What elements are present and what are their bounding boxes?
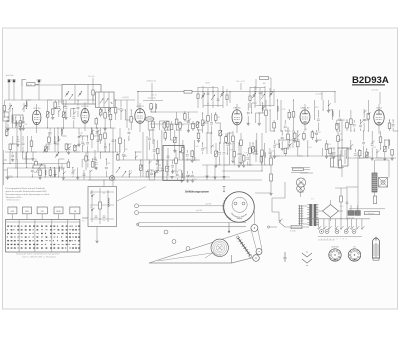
svg-text:C67: C67: [132, 119, 135, 121]
table caption: [16, 253, 59, 259]
mid lower fill: [117, 151, 164, 177]
mid low cluster: [149, 159, 197, 182]
svg-text:C80 C81: C80 C81: [348, 217, 355, 219]
svg-text:+U1 20±: +U1 20±: [371, 90, 378, 92]
tube V3 UCH81: [135, 106, 145, 123]
lower wire left: [3, 163, 70, 165]
svg-text:R3: R3: [125, 149, 127, 151]
bus elbow to V3: [137, 91, 138, 108]
V3 top labels: [143, 98, 163, 101]
svg-text:U2: U2: [103, 193, 105, 195]
svg-text:3: 3: [327, 239, 328, 241]
mains symbols: [283, 251, 312, 266]
below V3 verticals: [143, 122, 155, 177]
svg-text:L9: L9: [212, 146, 214, 148]
svg-text:L10: L10: [80, 133, 83, 135]
pin numbers row: [321, 239, 347, 241]
svg-text:9: 9: [346, 239, 347, 241]
chassis bus left: [5, 176, 230, 178]
svg-text:17a-19a: 17a-19a: [88, 76, 95, 78]
pocket fills: [48, 112, 293, 166]
left RF lattice A: [3, 99, 115, 130]
mid band bus: [118, 159, 200, 161]
bus inline resistor: [184, 90, 192, 93]
svg-text:weiß 88: weiß 88: [205, 203, 211, 205]
svg-text:Gl 1: Gl 1: [340, 206, 343, 208]
tuning gang left: [8, 103, 26, 160]
svg-text:Tr 1: Tr 1: [311, 198, 314, 201]
svg-text:L42: L42: [152, 171, 155, 173]
svg-text:R60: R60: [275, 144, 278, 146]
IF transformer cluster 2: [249, 82, 274, 108]
svg-text:5: 5: [333, 239, 334, 241]
C51 label: [236, 81, 245, 90]
svg-text:R5: R5: [60, 102, 62, 104]
far left box: [3, 112, 9, 128]
below V3 lattice: [115, 128, 130, 153]
svg-text:R44: R44: [216, 117, 219, 119]
svg-text:Ant Erde: Ant Erde: [6, 74, 15, 77]
svg-text:Netzspannungen und der Spannun: Netzspannungen und der Spannungen im Ger…: [6, 193, 51, 196]
svg-text:UABC 80: UABC 80: [301, 106, 311, 109]
aerial to box wire: [35, 84, 62, 86]
IF transformer cluster 1: [197, 83, 228, 108]
svg-text:LW: LW: [41, 211, 44, 213]
svg-text:C59: C59: [107, 163, 110, 165]
det bus: [202, 164, 266, 166]
svg-text:R17: R17: [181, 124, 184, 126]
svg-text:L15: L15: [373, 147, 376, 149]
svg-text:UL 84: UL 84: [376, 108, 382, 110]
svg-text:8: 8: [343, 239, 344, 241]
band filter box: [62, 85, 101, 105]
res chain x271: [269, 152, 272, 195]
svg-text:C36: C36: [116, 109, 119, 111]
tube V6 UL84: [374, 108, 384, 126]
det low extension: [205, 165, 225, 180]
svg-text:C22: C22: [339, 133, 342, 135]
svg-text:Seilführungssystem: Seilführungssystem: [185, 191, 210, 194]
left mid bus: [5, 127, 112, 129]
out lattice A: [346, 100, 399, 132]
svg-text:L49: L49: [188, 159, 191, 161]
leader diagonal: [117, 187, 146, 202]
svg-text:2: 2: [324, 239, 325, 241]
tube V5 UABC80: [300, 106, 310, 124]
svg-text:C78: C78: [282, 109, 285, 111]
volume potentiometer: [32, 164, 45, 174]
det lattice A: [201, 102, 231, 143]
switch position table: [6, 199, 81, 252]
bus label: [146, 81, 156, 83]
svg-text:C37: C37: [124, 156, 127, 158]
svg-text:0,5M log: 0,5M log: [32, 172, 39, 174]
svg-text:C43: C43: [327, 144, 330, 146]
svg-text:+185(2) (2): +185(2) (2): [146, 81, 156, 83]
chassis bus right: [300, 172, 313, 174]
notes paragraph: [6, 187, 51, 199]
svg-text:MW: MW: [25, 211, 29, 213]
misc verticals: [152, 91, 380, 104]
tube socket A: [329, 246, 341, 261]
long chassis y180: [62, 179, 262, 181]
svg-text:UCC 85: UCC 85: [81, 106, 89, 108]
left bottom parts: [9, 152, 62, 176]
svg-text:C47: C47: [195, 146, 198, 148]
svg-text:4: 4: [330, 239, 331, 241]
output transformer and speaker: [348, 152, 389, 211]
svg-text:130/2x: 130/2x: [205, 83, 210, 85]
tube V4 EBF80: [232, 107, 242, 125]
svg-text:4a: 4a: [103, 220, 105, 222]
svg-text:R14: R14: [315, 107, 318, 109]
mid lattice A: [114, 99, 135, 130]
svg-text:Toleranzen ±10%.: Toleranzen ±10%.: [6, 196, 23, 199]
out lattice B: [346, 130, 394, 160]
svg-text:C68: C68: [14, 144, 17, 146]
fill x100-135: [104, 108, 127, 186]
top supply bus: [137, 91, 336, 103]
mains lead: [272, 182, 285, 221]
pilot lamp: [297, 185, 305, 197]
det lattice B: [201, 132, 270, 167]
svg-text:L4: L4: [130, 170, 132, 172]
left top bus: [5, 99, 135, 101]
svg-text:L63: L63: [331, 154, 334, 156]
indicator lamp: [291, 168, 310, 193]
tube side view: [373, 237, 380, 260]
svg-text:UKW: UKW: [56, 211, 61, 213]
mid lattice C: [148, 129, 200, 162]
dial cord system: [135, 187, 263, 264]
left low bus: [5, 151, 118, 153]
left RF lattice B: [5, 127, 110, 154]
fill x262-270: [261, 100, 268, 172]
svg-text:a-b(2)(2): a-b(2)(2): [122, 97, 129, 99]
svg-text:9,5: 9,5: [82, 221, 85, 223]
svg-text:R10: R10: [317, 132, 320, 134]
volume pot wire: [8, 167, 65, 169]
left trimmer arrows: [43, 147, 126, 176]
chassis bus mid: [222, 170, 262, 172]
svg-text:weiß 85: weiß 85: [196, 210, 202, 212]
svg-text:Si 0,2A: Si 0,2A: [290, 230, 296, 233]
svg-text:Wellenschalter: Wellenschalter: [7, 199, 20, 202]
ratio detector box: [163, 146, 184, 181]
svg-text:EBF 80: EBF 80: [234, 107, 242, 109]
svg-text:C51 u C52: C51 u C52: [236, 81, 245, 83]
R20 loop top: [255, 77, 271, 93]
mid lattice B: [148, 103, 202, 132]
left RF lattice C: [6, 151, 110, 179]
svg-text:C64: C64: [203, 147, 206, 149]
svg-text:Für eingegebene Werte und und: Für eingegebene Werte und und Schaltteil…: [6, 187, 46, 190]
svg-text:Stellung der Tasten und Kontak: Stellung der Tasten und Kontakte von vor…: [16, 253, 59, 256]
svg-text:UCH 81: UCH 81: [136, 106, 144, 108]
coil pack box: [96, 92, 130, 108]
below V4 parts: [231, 131, 242, 164]
supply labels: [315, 90, 378, 96]
svg-text:+2(2)+2(4): +2(2)+2(4): [147, 98, 156, 100]
svg-text:Taste U = UKW, M = MW, L = LW: Taste U = UKW, M = MW, L = LW gedrückt: [22, 256, 56, 259]
table side symbol: [82, 218, 88, 223]
aerial input group: [6, 74, 95, 100]
af lattice A: [270, 99, 345, 131]
svg-text:C67: C67: [367, 157, 370, 159]
tube V2 UCC85: [81, 106, 90, 123]
parts above tone box: [83, 170, 105, 187]
svg-text:7: 7: [340, 239, 341, 241]
det lattice C: [247, 102, 265, 125]
svg-text:KW: KW: [11, 211, 14, 213]
svg-text:UCC 85: UCC 85: [33, 108, 41, 110]
svg-text:R78: R78: [178, 170, 181, 172]
bus drop at x152: [151, 83, 152, 92]
power supply section: [267, 186, 379, 242]
out bus: [348, 157, 396, 159]
af bus: [270, 155, 344, 157]
tube V1 UCC85: [32, 108, 41, 125]
svg-text:+U1 205: +U1 205: [315, 93, 322, 95]
svg-text:L79: L79: [308, 147, 311, 149]
svg-text:gelten die und alte Werkstatt-: gelten die und alte Werkstatt-Ersatzteil…: [6, 190, 48, 193]
R right bottom: [330, 152, 344, 168]
title B2D93A: [352, 75, 389, 86]
svg-text:C60: C60: [188, 176, 191, 178]
tube stub wires: [37, 102, 379, 134]
tube socket B: [348, 246, 360, 261]
bus label 2: [151, 95, 157, 97]
svg-text:1: 1: [321, 239, 322, 241]
left of tonebox parts: [85, 150, 97, 170]
svg-text:R3: R3: [230, 149, 232, 151]
svg-text:60-41: 60-41: [27, 84, 32, 86]
af lattice B: [269, 129, 348, 158]
svg-text:R64: R64: [158, 165, 161, 167]
chassis y193: [255, 192, 271, 194]
tone control box: [88, 176, 117, 243]
IF coil oval: [145, 117, 154, 121]
left edge wire: [3, 150, 7, 185]
svg-text:L76: L76: [24, 124, 27, 126]
interstage box: [338, 120, 348, 177]
svg-text:L79: L79: [244, 153, 247, 155]
svg-text:6: 6: [337, 239, 338, 241]
svg-text:UCH 81s: UCH 81s: [331, 246, 339, 248]
